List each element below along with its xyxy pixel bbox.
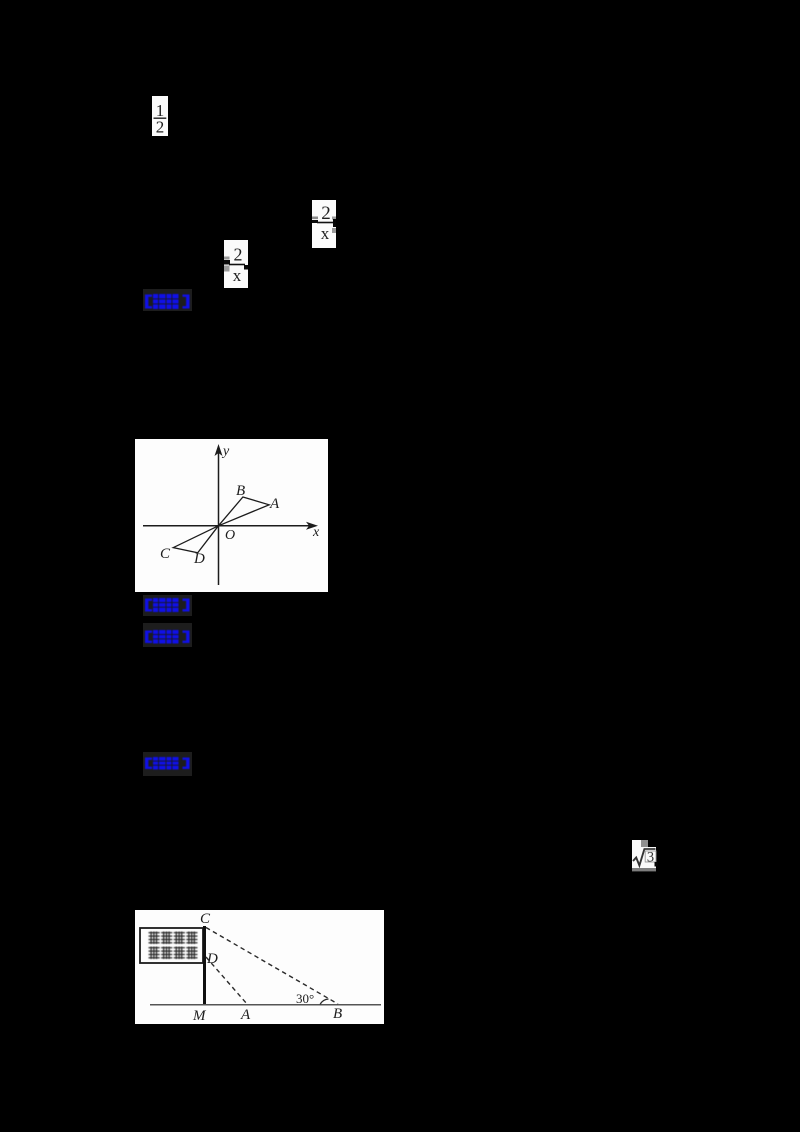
svg-text:B: B (333, 1006, 342, 1022)
svg-text:D: D (193, 551, 205, 567)
pole (203, 926, 206, 1005)
y axis (218, 449, 220, 585)
svg-text:M: M (192, 1008, 207, 1024)
svg-text:x: x (312, 525, 320, 540)
svg-text:30°: 30° (296, 991, 314, 1006)
svg-text:2: 2 (234, 245, 243, 265)
blue label 3 【解析】 (143, 623, 192, 647)
equation =2/x image box (upper right) (312, 200, 336, 248)
svg-text:x: x (233, 266, 242, 285)
road/sign figure box (135, 910, 384, 1024)
svg-text:y: y (221, 444, 230, 459)
blue label 4 【答案】 (143, 752, 192, 776)
svg-text:C: C (200, 911, 211, 927)
svg-text:B: B (236, 483, 245, 499)
triangle OCD (173, 526, 218, 553)
dashed line C to B (206, 928, 338, 1005)
equation =2/x image box (lower left) (224, 240, 248, 288)
sqrt(3) image box (632, 840, 658, 872)
sign text row 1: 多雾路段 (149, 932, 198, 945)
ground line (150, 1004, 381, 1006)
blue label 2 【答案】 (143, 595, 192, 616)
svg-text:D: D (206, 951, 218, 967)
svg-text:A: A (269, 496, 280, 512)
x axis (143, 525, 313, 527)
svg-text:2: 2 (321, 203, 331, 224)
triangle OAB (218, 497, 269, 526)
svg-text:x: x (321, 224, 330, 243)
svg-text:O: O (225, 528, 235, 543)
sign board (140, 928, 203, 963)
comma after box (333, 219, 336, 227)
svg-text:A: A (240, 1007, 251, 1023)
svg-text:C: C (160, 546, 171, 562)
svg-text:2: 2 (156, 118, 165, 137)
blue label 1 【答案】 (143, 289, 192, 311)
fraction 1/2 image box (152, 96, 168, 136)
coordinate plane figure box (135, 439, 328, 592)
svg-text:3: 3 (647, 850, 654, 866)
angle arc at B (320, 999, 329, 1005)
sign text row 2: 谨慎驾驶 (149, 947, 198, 960)
dashed line D to A (206, 957, 247, 1004)
